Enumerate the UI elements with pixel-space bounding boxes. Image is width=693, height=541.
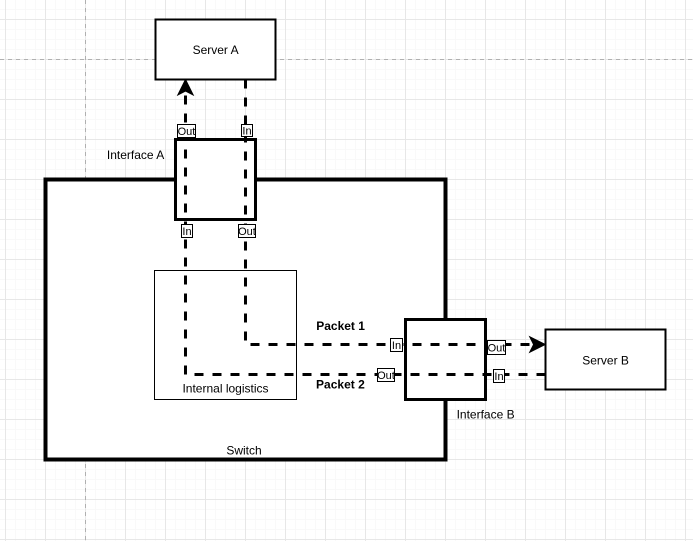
svg-text:Interface B: Interface B xyxy=(457,408,515,422)
svg-text:Interface A: Interface A xyxy=(107,148,164,162)
svg-text:Server B: Server B xyxy=(582,354,629,368)
svg-text:Switch: Switch xyxy=(226,444,261,458)
svg-text:In: In xyxy=(494,371,503,383)
svg-text:Out: Out xyxy=(238,226,256,238)
svg-text:Packet 1: Packet 1 xyxy=(316,319,365,333)
svg-text:Packet 2: Packet 2 xyxy=(316,378,365,392)
svg-text:In: In xyxy=(182,226,191,238)
svg-text:Internal logistics: Internal logistics xyxy=(182,382,268,396)
svg-text:Server A: Server A xyxy=(193,43,239,57)
svg-text:In: In xyxy=(392,340,401,352)
svg-text:Out: Out xyxy=(178,126,196,138)
svg-text:In: In xyxy=(242,126,251,138)
svg-text:Out: Out xyxy=(488,343,506,355)
svg-text:Out: Out xyxy=(377,370,395,382)
